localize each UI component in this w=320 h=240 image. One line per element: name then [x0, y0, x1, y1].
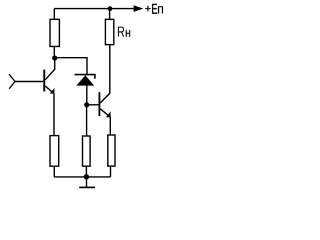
wire: zener anode lead to node B	[86, 85, 88, 105]
zener diode VD1 cathode bar	[75, 75, 95, 79]
wire: input to Q1 base	[15, 81, 43, 83]
node: ground junction dot	[84, 174, 89, 179]
transistor Q2 base bar	[99, 92, 101, 116]
zener diode VD1 anode triangle	[76, 75, 94, 85]
wire: Rn top lead	[109, 9, 111, 20]
resistor R2 (bottom left)	[50, 136, 59, 167]
label Rн	[118, 27, 130, 37]
wire: R2 bottom lead	[53, 166, 55, 177]
transistor Q2 emitter arrow	[106, 111, 111, 117]
wire: R3 bottom lead	[85, 166, 87, 177]
input terminal chevron	[9, 74, 15, 89]
transistor Q2 collector lead	[100, 45, 110, 103]
node: +Ep junction dot	[108, 6, 113, 11]
wire: zener node B to R3	[86, 105, 88, 136]
label +Еп	[145, 4, 163, 14]
resistor R4 (bottom right, emitter of Q2)	[108, 135, 115, 166]
ground bar	[79, 186, 95, 188]
ground stub	[86, 177, 88, 188]
supply arrow to +Ep	[134, 5, 144, 12]
transistor Q1 emitter arrow	[50, 88, 55, 94]
transistor Q2 emitter lead	[100, 109, 110, 135]
wire: R1 top lead	[53, 9, 55, 20]
wire: bottom rail	[54, 176, 110, 178]
transistor Q1 collector lead	[45, 58, 55, 80]
wire: +Ep top rail	[54, 8, 134, 10]
node B: junction dot (zener / Q2 base / R3)	[84, 102, 89, 107]
wire: R4 bottom lead	[110, 166, 112, 177]
resistor R1 (top left)	[50, 19, 59, 46]
resistor R3 (bottom middle)	[83, 136, 91, 166]
wire: R1 bottom lead to node A	[53, 46, 55, 58]
wire: Q2 base wire from node B	[87, 104, 99, 106]
node A: junction dot (R1 / Q1 collector / zener)	[52, 55, 57, 60]
transistor Q1 emitter lead	[45, 86, 54, 136]
wire: node A to zener cathode	[55, 58, 87, 74]
resistor Rn (load)	[105, 19, 113, 44]
transistor Q1 base bar	[43, 70, 45, 92]
